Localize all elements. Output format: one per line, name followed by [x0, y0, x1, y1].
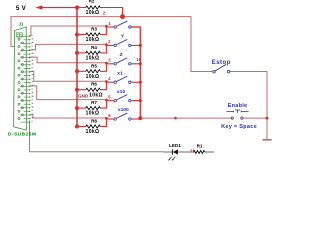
svg-text:D-SUB25M: D-SUB25M: [8, 131, 37, 137]
svg-text:Enable: Enable: [228, 103, 248, 109]
svg-text:R1: R1: [197, 143, 203, 148]
svg-text:10kΩ: 10kΩ: [89, 92, 103, 98]
svg-text:10kΩ: 10kΩ: [86, 56, 100, 62]
svg-text:J1: J1: [19, 22, 24, 27]
svg-text:10: 10: [136, 57, 141, 62]
svg-text:R6: R6: [91, 82, 97, 87]
svg-text:5 V: 5 V: [16, 5, 27, 12]
svg-text:10kΩ: 10kΩ: [86, 111, 100, 117]
svg-text:R7: R7: [91, 100, 97, 105]
svg-text:GND: GND: [78, 93, 89, 98]
svg-text:10kΩ: 10kΩ: [86, 74, 100, 80]
svg-text:R2: R2: [89, 0, 95, 4]
svg-text:Key = Space: Key = Space: [221, 124, 257, 130]
svg-text:10kΩ: 10kΩ: [86, 10, 100, 16]
svg-text:R8: R8: [91, 119, 97, 124]
svg-text:Estop: Estop: [212, 60, 231, 66]
svg-text:Z: Z: [120, 52, 123, 58]
svg-text:LED1: LED1: [169, 143, 181, 148]
svg-text:x100: x100: [118, 107, 129, 113]
svg-text:11: 11: [190, 149, 195, 154]
svg-text:R3: R3: [91, 27, 97, 32]
svg-text:10kΩ: 10kΩ: [86, 37, 100, 43]
svg-text:x10: x10: [117, 89, 125, 95]
svg-text:10kΩ: 10kΩ: [86, 129, 100, 135]
svg-text:R4: R4: [91, 45, 97, 50]
svg-text:x1: x1: [117, 70, 123, 76]
svg-text:R5: R5: [91, 63, 97, 68]
